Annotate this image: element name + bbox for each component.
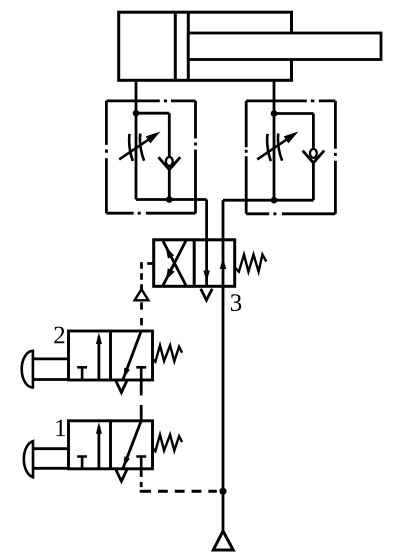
valve 1 return spring (153, 435, 183, 452)
throttle valve FC2 adjustment arrow (257, 139, 287, 160)
valve 2 exhaust passage diagonal (123, 331, 141, 380)
valve 1 blocked port T left (77, 457, 87, 469)
cylinder barrel (119, 12, 292, 80)
valve 3 divider (193, 240, 196, 286)
label 1 (56, 420, 65, 437)
valve 1 blocked port T right (136, 457, 146, 469)
wire dashed horizontal run (158, 490, 217, 493)
valve 3 pilot line dashes (142, 264, 154, 290)
check valve FC1 seat (158, 157, 180, 170)
wire FC2 check branch lower (312, 163, 315, 200)
valve 1 passage arrow up (98, 426, 101, 469)
wire cylinder left port (135, 80, 138, 113)
valve 1 body (69, 421, 153, 469)
valve 2 body (69, 331, 153, 380)
wire FC1 bottom connector (136, 198, 207, 201)
piston rod (188, 33, 381, 60)
wire FC1 top connector (136, 112, 169, 115)
flow control valve FC2 enclosure left (245, 101, 248, 214)
flow control valve FC2 enclosure top (246, 100, 335, 103)
valve 2 divider (109, 331, 112, 380)
check valve FC2 seat (303, 151, 325, 163)
valve 3 crossed passage 1 (163, 241, 186, 286)
valve 1 push button cap (24, 441, 33, 477)
wire valve 1 dashed vertical dash (140, 482, 143, 487)
valve 3 straight passage up (222, 240, 225, 286)
flow control valve FC1 enclosure right (194, 101, 197, 213)
valve 1 push button rails (33, 449, 69, 469)
flow control valve FC2 enclosure bottom (246, 212, 335, 215)
valve 1 exhaust vent (116, 470, 127, 482)
flow control valve FC1 enclosure bottom (106, 212, 195, 215)
valve 2 blocked port T left (77, 367, 87, 380)
valve 3 return spring (235, 255, 267, 272)
wire valve 2 to valve 1 link lower (140, 405, 143, 421)
wire valve 1 dashed corner (141, 490, 151, 491)
node FC1 inlet junction (133, 110, 140, 117)
throttle valve FC2 restrictor arcs (267, 134, 271, 161)
valve 2 blocked port T right (136, 367, 146, 380)
air supply source triangle (213, 531, 233, 550)
wire FC1 check branch upper (168, 113, 171, 158)
wire FC1 to valve 3 port A (205, 200, 208, 240)
valve 3 exhaust vent (201, 289, 213, 300)
flow control valve FC2 enclosure right (334, 101, 337, 214)
valve 2 return spring (153, 345, 183, 362)
label 2 (54, 327, 64, 344)
valve 3 crossed passage 2 (163, 241, 186, 286)
wire FC2 top connector (274, 112, 314, 115)
flow control valve FC1 enclosure left (105, 101, 108, 213)
valve 2 exhaust vent (116, 381, 127, 393)
wire FC2 bottom connector (223, 199, 314, 202)
pilot symbol triangle (135, 289, 149, 300)
valve 3 straight passage down (205, 240, 208, 286)
wire main supply line (222, 286, 225, 531)
check valve FC2 ball (310, 149, 317, 158)
label 3 (231, 294, 241, 311)
check valve FC1 ball (166, 157, 173, 166)
valve 1 exhaust passage diagonal (123, 421, 141, 469)
valve 2 push button rails (33, 359, 69, 380)
wire FC2 throttle branch (273, 114, 276, 201)
node FC1 outlet junction (166, 196, 173, 203)
wire valve 2 to valve 1 link upper (140, 380, 143, 395)
wire valve 1 outlet stub (140, 469, 143, 477)
node FC2 outlet junction (271, 197, 278, 204)
piston line right (187, 12, 190, 80)
node FC2 inlet junction (271, 110, 278, 117)
throttle valve FC1 adjustment arrow (119, 139, 149, 160)
valve 3 body (154, 240, 235, 286)
wire pilot dashed to valve 2 (140, 300, 143, 331)
valve 2 push button cap (22, 351, 33, 388)
flow control valve FC1 enclosure top (106, 100, 195, 103)
wire FC1 throttle branch (135, 113, 138, 199)
valve 2 passage arrow up (98, 337, 101, 381)
valve 1 divider (109, 421, 112, 469)
piston line left (174, 12, 177, 80)
wire FC2 to valve 3 port B (222, 200, 225, 240)
node supply junction (219, 488, 226, 495)
wire FC1 check branch lower (168, 170, 171, 200)
wire cylinder right port (273, 80, 276, 113)
throttle valve FC1 restrictor arcs (129, 134, 133, 161)
wire FC2 check branch upper (312, 114, 315, 150)
